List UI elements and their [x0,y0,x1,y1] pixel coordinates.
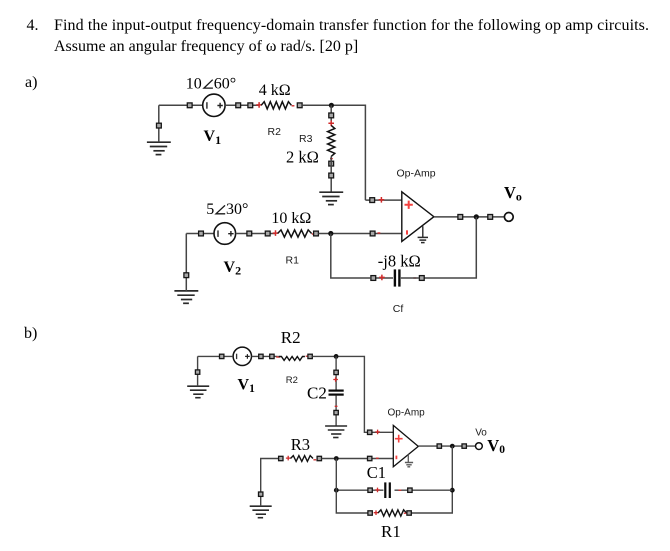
junction node at C1 row right [450,488,455,493]
wire: C2 bottom to GND6 [335,396,337,427]
wire: C1 row from right junction to plates [395,489,453,491]
source V1b minus bar [236,354,238,359]
ground GND3 (V2 source, circuit a) [174,291,198,303]
red plus polarity mark C1 [375,488,380,493]
angle symbol of 5&#8736;30&#176; [216,205,225,213]
terminal square at op-amp b output [437,444,441,448]
terminal square left of V1b [220,354,224,358]
terminal square Cf left [371,276,376,281]
terminal square R1b left [368,511,372,515]
wire: V2 right to R1 [236,233,276,235]
source V2 plus sign [228,231,233,236]
wire: op-amp output [434,216,504,218]
svg-text:R1: R1 [381,522,401,541]
terminal square left of V2 [199,231,204,236]
terminal square R2b left node [270,354,274,358]
wire: Cf right lead [401,277,420,279]
svg-text:Vo: Vo [475,428,487,439]
wire: V1 row left segment [159,104,203,106]
op-amp U1 red plus (non-inverting) [405,201,413,209]
resistor R3b zigzag [291,456,314,462]
junction node at output [474,214,479,219]
ground GND6 (C2) [325,426,347,438]
red minus polarity mark R1b [404,512,407,514]
svg-text:4.: 4. [27,17,39,34]
source V1b plus sign [245,354,250,359]
red minus mark at op-amp -in [378,232,381,234]
wire: V1b row left segment [198,355,233,357]
red plus polarity mark R3b [286,456,291,461]
red plus polarity mark R3 [328,121,334,127]
red minus polarity mark R2b [306,355,309,357]
svg-text:10 kΩ: 10 kΩ [271,210,311,227]
wire: left feedback vertical [336,459,370,514]
terminal square R2 left node [248,103,253,108]
red plus polarity mark C2 [333,377,338,382]
wire: GND7 up and right to R3b [261,459,279,507]
red plus mark at op-amp +in [379,197,385,203]
svg-text:Op-Amp: Op-Amp [397,168,436,180]
red plus polarity mark Cf [379,275,385,281]
terminal square C2 top [334,370,338,374]
terminal square C1 right [408,488,412,492]
circuit a labels [186,75,522,277]
red plus polarity mark R1b [374,510,379,515]
svg-text:R2: R2 [268,126,282,138]
red minus polarity mark Cf [413,277,416,279]
angle symbol of 10&#8736;60&#176; [204,80,213,88]
terminal square op-amp -in [370,231,375,236]
svg-text:R1: R1 [286,255,300,267]
terminal square R1b right [407,511,411,515]
op-amp U2 triangle [393,425,418,466]
red plus mark at op-amp b +in [375,430,380,435]
svg-text:4 kΩ: 4 kΩ [259,82,291,99]
ground GND2 (R3, circuit a) [319,192,343,204]
op-amp U2 red minus [395,456,397,460]
terminal square R3 top [329,113,334,118]
source V1 circle (10&#8736;60&#176;) [203,94,225,116]
junction node at R1 / feedback [328,231,333,236]
terminal square V1b output [259,354,263,358]
terminal square on GND3 wire [184,273,189,278]
red minus polarity mark R3b [313,459,316,461]
red minus polarity mark R3 [330,158,333,160]
red minus polarity mark C2 [335,405,338,407]
junction node output b [450,444,455,449]
source V2 minus bar [217,230,219,237]
wire: junction down to R3 [330,105,332,120]
svg-text:5: 5 [206,201,214,218]
source V1 minus bar [206,102,208,109]
terminal square V2 output [247,231,252,236]
junction node R2b/C2 [334,354,339,359]
terminal square on GND1 wire [157,123,162,128]
svg-text:2 kΩ: 2 kΩ [286,147,319,166]
resistor R1 zigzag (10 kOhm) [278,230,312,237]
red polarity dash R2b left [276,356,280,358]
terminal square left of V1 [187,103,192,108]
source V2 circle (5&#8736;30&#176;) [214,223,236,245]
svg-text:Find the input-output frequenc: Find the input-output frequency-domain t… [54,17,649,34]
wire: GND1 vertical to V1 row [158,105,160,142]
red minus polarity mark C1 [399,489,402,491]
op-amp U1 red minus (inverting) [406,230,408,234]
capacitor C2 plates [329,391,344,395]
red minus polarity mark R2 [292,105,295,107]
output port circle Vo b [476,443,483,450]
wire: C1 left lead [336,489,383,491]
wire: R2b to corner, down to op-amp +in [312,356,393,432]
svg-text:C1: C1 [367,463,386,482]
terminal square op-amp +in [370,198,375,203]
wire: feedback vertical from output junction [424,217,476,278]
wire: corner into op-amp non-inverting input [365,199,401,201]
svg-text:30°: 30° [226,201,248,218]
wire: R2 to top-right corner [302,105,365,200]
terminal square on GND7 wire [259,492,263,496]
svg-text:Assume an angular frequency of: Assume an angular frequency of ω rad/s. … [54,38,358,55]
wire: Cf to left corner and up to R1 junction [331,234,371,279]
capacitor C1 plates [385,482,390,498]
wire: op-amp b output [418,445,475,447]
resistor R2 zigzag (4 kOhm) [261,102,291,109]
resistor R1b zigzag [378,510,407,516]
wire: GND3 vertical to V2 row [185,234,187,291]
wire: GND5 vertical to V1 row [197,356,199,386]
op-amp U1 triangle [402,192,434,242]
terminal square op-amp b +in [368,430,372,434]
svg-text:10: 10 [186,75,202,92]
op-amp U2 red plus [395,435,403,443]
terminal square C1 left [368,488,372,492]
terminal square at op-amp output [458,215,463,220]
ground GND8 (op-amp b) [405,454,413,466]
wire: V2 row left segment [186,233,214,235]
terminal square R3b left [279,456,283,460]
source V1b circle [233,347,251,365]
svg-text:R3: R3 [291,435,310,454]
red minus polarity mark R1 [312,233,315,235]
terminal square R2b right [308,354,312,358]
svg-text:b): b) [24,325,37,342]
resistor R2b zigzag [279,357,305,361]
terminal square Cf right [419,276,424,281]
terminal square before Vo port b [462,444,466,448]
wire: R3b to op-amp b -in [322,458,394,460]
terminal square R3b right [317,456,321,460]
red minus mark at op-amp b -in [376,457,379,459]
svg-text:R3: R3 [299,133,313,145]
svg-text:Cf: Cf [393,303,404,315]
svg-text:R2: R2 [281,328,301,347]
ground GND1 (V1 source, circuit a) [147,142,171,154]
svg-text:R2: R2 [286,375,298,386]
junction node at C1 row left [334,488,339,493]
source V1 plus sign [217,103,222,108]
wire: V1b right to R2b [252,355,278,357]
terminal square on GND5 wire [195,370,199,374]
terminal square R2 right [297,103,302,108]
ground GND4 (op-amp a) [418,226,428,242]
terminal square before Vo port [488,215,493,220]
wire: V1 right to R2 [225,104,259,106]
wire: Cf left lead [376,277,394,279]
wire: R3 to GND2 [330,156,332,192]
svg-text:-j8 kΩ: -j8 kΩ [378,252,421,271]
svg-text:Op-Amp: Op-Amp [388,408,426,419]
svg-text:60°: 60° [214,75,236,92]
output port circle Vo [504,213,513,222]
circuit b labels [238,328,506,541]
capacitor Cf plates (-j8 kOhm) [395,269,400,286]
terminal square C2 bottom [334,410,338,414]
svg-text:a): a) [25,74,37,91]
red plus polarity mark R1 [273,230,279,236]
red plus polarity mark R2 [256,102,262,108]
terminal square V1 output [236,103,241,108]
terminal square R1 right [314,231,319,236]
junction node R3b/feedback [334,456,339,461]
terminal square above GND2 [329,173,334,178]
resistor R3 zigzag (2 kOhm) [328,125,335,156]
wire: R1 to op-amp inverting input [318,233,401,235]
junction node at R2/R3 [329,103,334,108]
terminal square op-amp b -in [368,456,372,460]
terminal square R3 bottom [329,161,334,166]
ground GND5 (V1 source, circuit b) [187,386,209,398]
wire: feedback vertical from output junction b [408,446,452,513]
svg-text:C2: C2 [307,383,327,402]
terminal square R1 left node [265,231,270,236]
ground GND7 (R3 source side, circuit b) [250,506,272,518]
wire: junction down to C2 [335,356,337,389]
